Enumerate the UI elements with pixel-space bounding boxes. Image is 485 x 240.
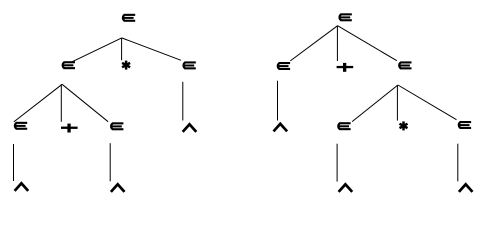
node caret bottom far-left [15, 183, 29, 191]
wire E-level2-left-right-tree to caret [277, 81, 279, 121]
node caret bottom mid right tree [339, 184, 353, 192]
wire root-right to child + [336, 26, 338, 61]
wire E-level2-left to child + [60, 84, 62, 122]
node * operator (level2 left tree) [122, 61, 130, 70]
node E left child (level2) [63, 61, 75, 69]
wire root-left to child E1 [72, 38, 122, 62]
node E level3 far-left [15, 122, 27, 130]
node E level3 mid [111, 122, 123, 130]
node E right child right tree (level2) [399, 61, 411, 69]
node caret under E-level2-left right tree [274, 124, 288, 132]
wire E-level3-far-left to caret [13, 144, 15, 181]
node E root left tree [123, 14, 135, 22]
wire E-level2-right-right-tree to child * [396, 85, 398, 121]
node E level3 far-right [459, 121, 471, 129]
node caret bottom far-right [459, 184, 473, 192]
node * operator (level3 right tree) [400, 121, 408, 130]
wire E-level2-right-right-tree to child E [398, 85, 457, 120]
node caret bottom mid [111, 184, 125, 192]
wire E-level2-left to child E [62, 84, 108, 121]
node E right child (level2) [184, 61, 196, 69]
node E left child right tree (level2) [278, 62, 290, 70]
wire E-level2-right to caret [182, 82, 184, 121]
wire E-level2-right-right-tree to child E [352, 85, 398, 122]
node E root right tree [340, 13, 352, 21]
node E level3 mid right tree [338, 122, 350, 130]
wire root-left to child * [121, 38, 123, 60]
wire root-right to child E1 [290, 26, 337, 61]
wire root-left to child E3 [122, 38, 181, 60]
wire E-level2-left to child E [14, 84, 62, 122]
node caret under E-level2-right [183, 124, 197, 132]
node + operator (level3 left tree) [61, 124, 78, 133]
wire root-right to child E3 [338, 26, 397, 61]
wire E-level3-mid to caret [109, 143, 111, 181]
wire E-level3-far-right to caret [457, 144, 459, 182]
node + operator (level2 right tree) [337, 63, 354, 72]
wire E-level3-mid-right-tree to caret [336, 144, 338, 182]
